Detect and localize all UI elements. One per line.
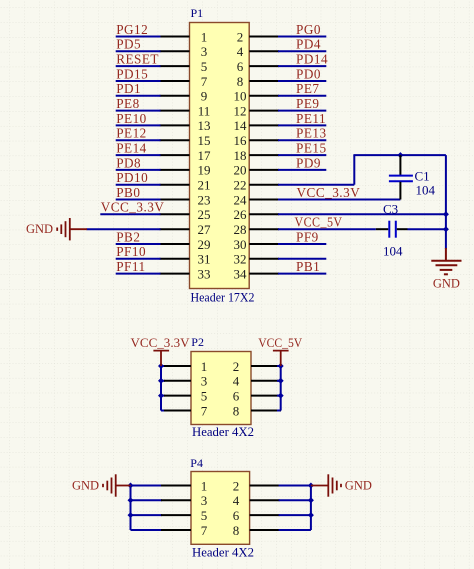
wire net PE13	[278, 139, 326, 141]
capacitor C3	[376, 221, 408, 238]
wire to ground	[445, 229, 447, 249]
svg-text:5: 5	[201, 388, 208, 403]
junction P4 pin4	[308, 497, 314, 503]
svg-text:14: 14	[234, 118, 248, 133]
svg-text:C1: C1	[415, 169, 430, 184]
svg-text:17: 17	[198, 148, 212, 163]
pin 26 of P1	[249, 213, 279, 215]
svg-text:PE9: PE9	[296, 96, 319, 111]
svg-text:34: 34	[234, 266, 248, 281]
junction P2 pin1	[158, 363, 164, 369]
junction P4 pin2	[308, 483, 314, 489]
pin 2 of P4	[250, 485, 280, 487]
junction pin26 wire	[443, 211, 449, 217]
svg-text:P1: P1	[191, 6, 204, 20]
wire bus to pin 3	[131, 499, 163, 501]
svg-text:GND: GND	[433, 277, 460, 291]
pin 9 of P1	[160, 95, 190, 97]
svg-text:PE14: PE14	[116, 141, 147, 156]
pin 11 of P1	[160, 110, 190, 112]
svg-text:9: 9	[201, 89, 208, 104]
junction P4 pin5	[128, 512, 134, 518]
wire net PE11	[278, 124, 326, 126]
svg-text:25: 25	[198, 207, 211, 222]
svg-text:8: 8	[233, 523, 240, 538]
svg-text:PG12: PG12	[116, 22, 148, 37]
svg-text:7: 7	[201, 74, 208, 89]
junction P2 pin5	[158, 393, 164, 399]
junction P4 pin6	[308, 512, 314, 518]
svg-text:32: 32	[234, 252, 247, 267]
svg-text:7: 7	[201, 403, 208, 418]
pin 4 of P1	[249, 50, 279, 52]
pin 7 of P2	[164, 410, 191, 412]
svg-text:33: 33	[198, 266, 211, 281]
junction at C1 top	[397, 152, 403, 158]
svg-text:19: 19	[198, 163, 211, 178]
junction P2 pin3	[158, 378, 164, 384]
pin 21 of P1	[160, 184, 190, 186]
svg-text:3: 3	[201, 44, 208, 59]
connector P1 box	[190, 23, 250, 289]
wire pin 6 to bus	[279, 514, 311, 516]
junction C3 right	[443, 226, 449, 232]
svg-text:12: 12	[234, 103, 247, 118]
svg-text:7: 7	[201, 523, 208, 538]
wire net PD5	[116, 50, 161, 52]
pin 13 of P1	[160, 124, 190, 126]
svg-text:4: 4	[233, 493, 240, 508]
pin 23 of P1	[160, 199, 190, 201]
svg-text:PE11: PE11	[296, 111, 326, 126]
wire net PB2	[116, 243, 161, 245]
svg-text:24: 24	[234, 192, 248, 207]
svg-text:PD15: PD15	[116, 66, 148, 81]
wire net PE15	[278, 154, 326, 156]
wire net VCC_3.3V right	[278, 199, 400, 201]
pin 18 of P1	[249, 154, 279, 156]
wire bus to pin 7	[131, 529, 163, 531]
svg-text:PF11: PF11	[116, 259, 145, 274]
junction P2 pin2	[278, 363, 284, 369]
pin 30 of P1	[249, 243, 279, 245]
pin 19 of P1	[160, 169, 190, 171]
wire pin 4 to bus	[279, 499, 311, 501]
svg-text:21: 21	[198, 178, 211, 193]
svg-text:20: 20	[234, 163, 247, 178]
wire bus to pin 5	[161, 395, 165, 397]
wire bus to pin 1	[161, 365, 165, 367]
svg-text:2: 2	[233, 478, 240, 493]
wire net PD4	[278, 50, 326, 52]
svg-text:PD5: PD5	[116, 37, 141, 52]
wire bus to pin 7	[161, 410, 165, 412]
wire pin 2 to bus	[279, 485, 311, 487]
wire net PE10	[116, 124, 161, 126]
wire net PB0	[116, 199, 161, 201]
wire net PE12	[116, 139, 161, 141]
svg-text:PF10: PF10	[116, 244, 146, 259]
wire GND bus left	[130, 486, 132, 531]
svg-text:PD4: PD4	[296, 37, 321, 52]
svg-text:1: 1	[201, 478, 208, 493]
wire pin32 stub	[278, 258, 326, 260]
junction P2 pin6	[278, 393, 284, 399]
wire net GND left	[87, 228, 161, 230]
pin 8 of P1	[249, 80, 279, 82]
svg-text:PF9: PF9	[296, 229, 319, 244]
svg-text:VCC_5V: VCC_5V	[258, 335, 303, 350]
pin 16 of P1	[249, 139, 279, 141]
svg-text:PG0: PG0	[296, 22, 321, 37]
svg-text:PE7: PE7	[296, 81, 319, 96]
svg-text:6: 6	[237, 59, 244, 74]
svg-text:PD1: PD1	[116, 81, 141, 96]
svg-text:5: 5	[201, 508, 208, 523]
pin 1 of P1	[160, 36, 190, 38]
wire VCC_3.3V bus left	[160, 366, 162, 411]
svg-text:VCC_3.3V: VCC_3.3V	[297, 185, 361, 200]
svg-text:16: 16	[234, 133, 248, 148]
svg-text:2: 2	[233, 359, 240, 374]
svg-text:10: 10	[234, 89, 247, 104]
wire right riser down	[445, 155, 447, 229]
svg-text:29: 29	[198, 237, 211, 252]
svg-text:26: 26	[234, 207, 248, 222]
wire VCC_5V bus right	[280, 366, 282, 411]
wire net PE14	[116, 154, 161, 156]
capacitor C1	[389, 155, 413, 199]
svg-text:VCC_5V: VCC_5V	[295, 215, 343, 230]
pin 22 of P1	[249, 184, 279, 186]
pin 8 of P2	[251, 410, 281, 412]
svg-text:104: 104	[416, 183, 436, 198]
wire net PG0	[278, 36, 326, 38]
svg-text:3: 3	[201, 374, 208, 389]
wire net PD14	[278, 65, 326, 67]
pin 15 of P1	[160, 139, 190, 141]
wire net PD15	[116, 80, 161, 82]
pin 34 of P1	[249, 273, 279, 275]
svg-text:31: 31	[198, 252, 211, 267]
svg-text:PE10: PE10	[116, 111, 147, 126]
svg-text:8: 8	[233, 403, 240, 418]
svg-text:PD14: PD14	[296, 52, 328, 67]
pin 1 of P4	[161, 485, 191, 487]
pin 3 of P1	[160, 50, 190, 52]
junction P2 pin4	[278, 378, 284, 384]
svg-text:PD0: PD0	[296, 66, 321, 81]
power port VCC_5V bar	[273, 351, 289, 366]
connector P2 box	[191, 352, 251, 425]
svg-text:27: 27	[198, 222, 212, 237]
svg-text:23: 23	[198, 192, 211, 207]
svg-text:4: 4	[233, 374, 240, 389]
svg-text:PE13: PE13	[296, 126, 327, 141]
wire pin 8 to bus	[279, 529, 311, 531]
wire pin 4 to bus	[277, 380, 281, 382]
svg-text:3: 3	[201, 493, 208, 508]
wire pin26 to riser	[278, 213, 446, 215]
svg-text:GND: GND	[26, 222, 53, 236]
wire net PD9	[278, 169, 326, 171]
svg-text:PD8: PD8	[116, 155, 141, 170]
svg-text:4: 4	[237, 44, 244, 59]
pin 1 of P2	[164, 365, 191, 367]
wire net PE7	[278, 95, 326, 97]
svg-text:Header 17X2: Header 17X2	[191, 290, 255, 305]
wire pin 2 to bus	[277, 365, 281, 367]
wire pin22 to riser	[278, 184, 354, 186]
wire GND bus right	[310, 486, 312, 531]
power port VCC_3.3V bar	[153, 351, 169, 366]
wire pin 6 to bus	[277, 395, 281, 397]
pin 5 of P1	[160, 65, 190, 67]
pin 3 of P4	[161, 499, 191, 501]
svg-text:PB2: PB2	[116, 229, 140, 244]
wire net RESET	[116, 65, 161, 67]
svg-text:Header 4X2: Header 4X2	[192, 424, 254, 439]
svg-text:28: 28	[234, 222, 247, 237]
pin 20 of P1	[249, 169, 279, 171]
svg-text:18: 18	[234, 148, 247, 163]
svg-text:RESET: RESET	[116, 52, 159, 67]
svg-text:6: 6	[233, 388, 240, 403]
wire net PE9	[278, 110, 326, 112]
junction P4 pin1	[128, 483, 134, 489]
svg-text:1: 1	[201, 359, 208, 374]
pin 14 of P1	[249, 124, 279, 126]
power port GND left of P1	[57, 218, 87, 240]
svg-text:VCC_3.3V: VCC_3.3V	[131, 335, 191, 350]
wire net VCC_5V	[278, 228, 376, 230]
wire net VCC_3.3V left	[100, 213, 160, 215]
wire net PF11	[116, 273, 161, 275]
pin 2 of P1	[249, 36, 279, 38]
wire net PD10	[116, 184, 161, 186]
svg-text:PE15: PE15	[296, 141, 327, 156]
svg-text:PE8: PE8	[116, 96, 139, 111]
pin 5 of P4	[161, 514, 191, 516]
pin 6 of P1	[249, 65, 279, 67]
svg-text:PE12: PE12	[116, 126, 147, 141]
pin 5 of P2	[164, 395, 191, 397]
pin 27 of P1	[160, 228, 190, 230]
power port GND right of P4	[311, 474, 341, 496]
pin 4 of P4	[250, 499, 280, 501]
wire net PF10	[116, 258, 161, 260]
junction P4 pin3	[128, 497, 134, 503]
wire net PF9	[278, 243, 326, 245]
wire pin 8 to bus	[277, 410, 281, 412]
pin 2 of P2	[251, 365, 281, 367]
pin 32 of P1	[249, 258, 279, 260]
svg-text:5: 5	[201, 59, 208, 74]
svg-text:11: 11	[198, 103, 211, 118]
wire bus to pin 5	[131, 514, 163, 516]
svg-text:22: 22	[234, 178, 247, 193]
wire net PE8	[116, 110, 161, 112]
wire net PD1	[116, 95, 161, 97]
pin 7 of P1	[160, 80, 190, 82]
svg-text:P2: P2	[191, 335, 204, 349]
pin 12 of P1	[249, 110, 279, 112]
wire C3 to riser	[408, 228, 446, 230]
svg-text:8: 8	[237, 74, 244, 89]
svg-text:PD9: PD9	[296, 155, 321, 170]
svg-text:VCC_3.3V: VCC_3.3V	[101, 200, 165, 215]
pin 6 of P4	[250, 514, 280, 516]
power ground GND bottom right	[431, 248, 461, 274]
wire riser pin22 up	[353, 155, 355, 185]
pin 6 of P2	[251, 395, 281, 397]
svg-text:GND: GND	[345, 479, 372, 493]
svg-text:GND: GND	[72, 479, 99, 493]
wire net PG12	[116, 36, 161, 38]
pin 3 of P2	[164, 380, 191, 382]
svg-text:PB0: PB0	[116, 185, 140, 200]
pin 25 of P1	[160, 213, 190, 215]
svg-text:PB1: PB1	[296, 259, 320, 274]
connector P4 box	[191, 472, 250, 545]
svg-text:1: 1	[201, 29, 208, 44]
wire top run	[353, 154, 446, 156]
pin 29 of P1	[160, 243, 190, 245]
wire net PB1	[278, 273, 326, 275]
svg-text:P4: P4	[190, 456, 203, 470]
pin 31 of P1	[160, 258, 190, 260]
svg-text:15: 15	[198, 133, 211, 148]
pin 10 of P1	[249, 95, 279, 97]
svg-text:Header 4X2: Header 4X2	[192, 545, 254, 560]
svg-text:30: 30	[234, 237, 247, 252]
svg-text:104: 104	[383, 243, 403, 258]
pin 28 of P1	[249, 228, 279, 230]
wire bus to pin 3	[161, 380, 165, 382]
svg-text:C3: C3	[383, 202, 398, 217]
svg-text:13: 13	[198, 118, 211, 133]
pin 4 of P2	[251, 380, 281, 382]
svg-text:PD10: PD10	[116, 170, 148, 185]
svg-text:2: 2	[237, 29, 244, 44]
pin 33 of P1	[160, 273, 190, 275]
svg-text:6: 6	[233, 508, 240, 523]
wire net PD0	[278, 80, 326, 82]
pin 8 of P4	[250, 529, 280, 531]
power port GND left of P4	[103, 474, 131, 496]
pin 17 of P1	[160, 154, 190, 156]
wire net PD8	[116, 169, 161, 171]
wire bus to pin 1	[131, 485, 163, 487]
pin 7 of P4	[161, 529, 191, 531]
pin 24 of P1	[249, 199, 279, 201]
